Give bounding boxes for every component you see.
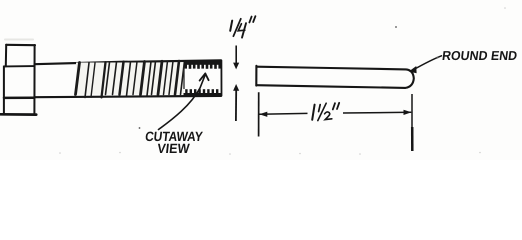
thread hatching <box>76 61 185 98</box>
bolt head B1 <box>1 45 37 115</box>
flat bar with round end <box>256 66 414 88</box>
svg-text:VIEW: VIEW <box>157 141 191 156</box>
cutaway window <box>184 61 222 96</box>
quarter-inch dimension arrows <box>233 46 239 122</box>
background paper <box>0 0 522 160</box>
label ROUND END <box>441 48 518 63</box>
round end leader arrow <box>409 56 442 73</box>
svg-text:ROUND END: ROUND END <box>441 48 518 63</box>
scan specks <box>139 26 439 129</box>
one-and-half-inch dimension <box>259 92 413 151</box>
quarter-inch text <box>230 16 255 37</box>
cutaway leader arrow <box>159 74 209 130</box>
thread shading tint <box>76 63 184 95</box>
one-and-half-inch text <box>312 103 339 121</box>
bolt shaft outline <box>35 60 222 97</box>
label CUTAWAY VIEW <box>143 129 203 156</box>
